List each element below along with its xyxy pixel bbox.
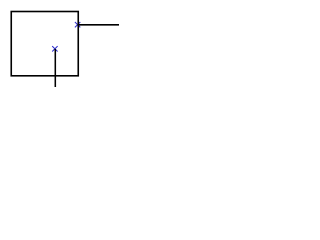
component body (rectangle symbol) — [11, 12, 78, 76]
wire (horizontal net from right edge to sheet edge) — [78, 24, 120, 26]
node B: unconnected endpoint marker (blue x) on interior wire end — [52, 46, 57, 51]
wire (vertical net from interior node to sheet bottom) — [54, 49, 56, 88]
node A: unconnected endpoint marker (blue x) on right-edge pin — [75, 22, 80, 27]
